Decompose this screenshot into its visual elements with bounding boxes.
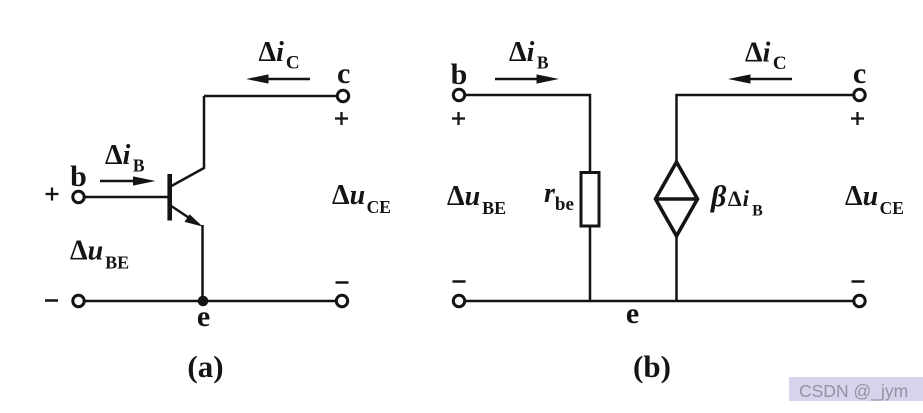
transistor Q1 collector lead	[171, 96, 205, 187]
minus sign at c side	[852, 280, 865, 283]
wire b to resistor	[465, 95, 590, 173]
wire bottom rail	[465, 300, 854, 303]
svg-text:(b): (b)	[633, 349, 671, 384]
plus sign at b terminal	[452, 112, 465, 125]
svg-text:c: c	[853, 57, 866, 90]
transistor Q1 base bar	[167, 174, 172, 221]
wire source top	[677, 95, 855, 163]
minus sign at collector side	[336, 281, 349, 284]
wire emitter vertical	[201, 225, 204, 301]
svg-text:CSDN @_jym: CSDN @_jym	[799, 381, 908, 402]
minus sign at base side	[45, 299, 58, 302]
terminal c circle	[337, 90, 348, 101]
dependent current source diamond	[656, 162, 698, 236]
terminal bottom-left circle	[453, 295, 464, 306]
transistor Q1 emitter lead with arrow	[171, 206, 203, 227]
wire base	[85, 196, 168, 199]
svg-text:e: e	[626, 297, 639, 330]
svg-text:e: e	[197, 300, 210, 333]
watermark background	[789, 377, 923, 401]
wire collector top	[204, 95, 337, 98]
arrow iC	[246, 74, 310, 83]
svg-text:b: b	[70, 160, 87, 193]
arrow iB	[495, 74, 559, 83]
terminal bottom-left circle	[73, 295, 84, 306]
svg-text:(a): (a)	[187, 349, 223, 384]
svg-text:c: c	[337, 57, 350, 90]
svg-text:b: b	[451, 58, 468, 91]
arrow iC	[728, 74, 792, 83]
terminal b circle	[453, 89, 464, 100]
wire resistor to bottom	[589, 226, 592, 301]
plus sign at collector terminal	[335, 112, 348, 125]
wire emitter bottom	[85, 300, 337, 303]
node e junction dot	[198, 296, 209, 307]
terminal bottom-right circle	[336, 295, 347, 306]
plus sign at c terminal	[851, 112, 864, 125]
terminal b circle	[73, 191, 84, 202]
terminal bottom-right circle	[854, 295, 865, 306]
arrow iB	[100, 176, 156, 185]
minus sign at b side	[453, 280, 466, 283]
resistor r_be body	[581, 173, 599, 227]
terminal c circle	[854, 89, 865, 100]
plus sign at base terminal	[46, 188, 59, 201]
wire source bottom	[675, 236, 678, 301]
